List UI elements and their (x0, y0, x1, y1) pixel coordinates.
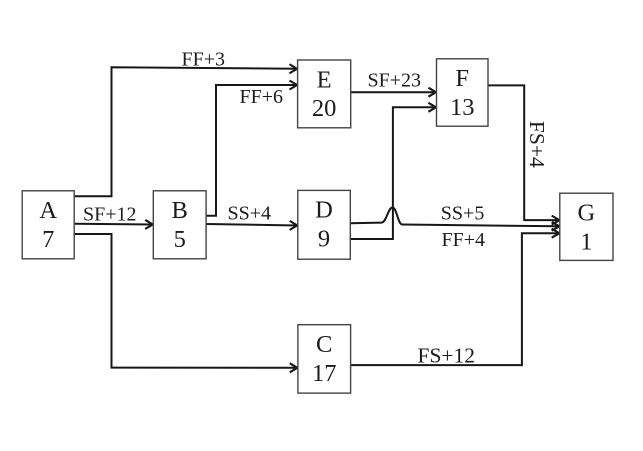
svg-text:17: 17 (312, 360, 337, 387)
svg-text:G: G (578, 200, 596, 227)
svg-text:A: A (39, 197, 57, 224)
node A (22, 191, 74, 259)
node C (298, 325, 351, 393)
node D (298, 190, 351, 259)
svg-text:20: 20 (312, 95, 337, 122)
svg-text:SS+4: SS+4 (228, 203, 272, 225)
svg-text:13: 13 (450, 94, 475, 121)
wire A to E (FF+3) (74, 67, 297, 196)
svg-text:9: 9 (318, 226, 330, 253)
svg-text:FF+6: FF+6 (240, 86, 284, 108)
svg-text:FS+12: FS+12 (418, 344, 476, 368)
svg-text:B: B (172, 197, 188, 224)
svg-text:SF+12: SF+12 (83, 203, 137, 225)
wire C to G (FS+12) (351, 233, 560, 365)
node B (153, 191, 206, 259)
svg-text:D: D (315, 197, 333, 224)
svg-text:5: 5 (174, 226, 186, 253)
wire D to G (SS+5 / FF+4) with hop over D-F wire (350, 208, 559, 227)
wire E to F (SF+23) (351, 91, 436, 93)
wire D to F (350, 107, 436, 239)
wire B to D (SS+4) (206, 224, 297, 226)
svg-text:SS+5: SS+5 (441, 202, 485, 224)
svg-text:FF+3: FF+3 (182, 49, 226, 71)
wire B to E (FF+6) (206, 85, 297, 216)
svg-text:F: F (455, 65, 469, 92)
svg-text:FS+4: FS+4 (525, 121, 549, 168)
svg-text:1: 1 (580, 228, 592, 255)
wire A to B (SF+12) (74, 223, 153, 226)
node E (298, 60, 351, 128)
svg-text:FF+4: FF+4 (442, 229, 486, 251)
node F (437, 59, 489, 126)
svg-text:E: E (317, 66, 332, 93)
svg-text:SF+23: SF+23 (368, 70, 422, 92)
svg-text:7: 7 (42, 226, 54, 253)
wire F to G (FS+4) (488, 85, 559, 220)
svg-text:C: C (316, 331, 332, 358)
wire A to C (74, 234, 297, 368)
node G (560, 193, 613, 260)
